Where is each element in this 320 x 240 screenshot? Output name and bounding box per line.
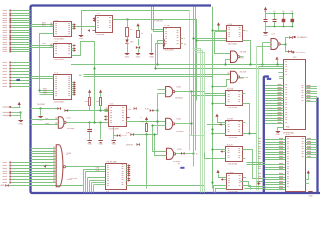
svg-text:74LS245B: 74LS245B — [53, 39, 64, 41]
svg-text:GND: GND — [136, 56, 141, 58]
svg-text:+UPROP: +UPROP — [125, 145, 134, 147]
svg-text:C9: C9 — [66, 154, 68, 156]
svg-text:74LS74B: 74LS74B — [228, 163, 238, 165]
svg-text:GND: GND — [286, 127, 291, 129]
svg-text:74LS245B: 74LS245B — [53, 59, 64, 61]
svg-text:X-W: X-W — [128, 109, 132, 111]
svg-text:IC4C: IC4C — [67, 118, 72, 120]
svg-text:74LS138B: 74LS138B — [106, 162, 117, 164]
svg-text:GND: GND — [111, 144, 116, 146]
svg-text:PC/MOSI: PC/MOSI — [155, 21, 163, 23]
svg-text:GND: GND — [308, 196, 313, 198]
svg-text:R9: R9 — [130, 29, 132, 31]
svg-text:C1: C1 — [264, 11, 266, 13]
svg-text:X4 TICBOX: X4 TICBOX — [296, 52, 307, 54]
svg-text:74LS74B: 74LS74B — [228, 137, 238, 139]
svg-text:IC14: IC14 — [228, 24, 233, 26]
svg-text:74LS138: 74LS138 — [69, 178, 78, 180]
svg-text:IC10C: IC10C — [227, 145, 234, 147]
svg-text:GND: GND — [149, 56, 154, 58]
svg-text:IC4D: IC4D — [177, 149, 182, 151]
svg-text:X4 NANDIO: X4 NANDIO — [297, 36, 308, 39]
svg-text:C2: C2 — [273, 11, 275, 13]
svg-text:GND: GND — [125, 56, 130, 58]
svg-text:IL: IL — [141, 117, 143, 119]
svg-text:WR: WR — [45, 118, 49, 120]
svg-text:C14: C14 — [272, 34, 275, 36]
svg-text:R7: R7 — [142, 122, 144, 124]
svg-text:GND: GND — [98, 144, 103, 146]
svg-text:D5 5V: D5 5V — [122, 135, 128, 137]
svg-text:74LS368: 74LS368 — [37, 104, 45, 106]
svg-text:74LS74B: 74LS74B — [228, 44, 238, 46]
svg-text:IC4B: IC4B — [176, 86, 181, 88]
svg-text:IC1B: IC1B — [165, 25, 170, 27]
svg-text:74LS245B: 74LS245B — [163, 49, 174, 51]
svg-text:J2: J2 — [196, 153, 198, 155]
svg-text:74LS04B: 74LS04B — [95, 34, 105, 36]
svg-text:X-W: X-W — [145, 108, 149, 110]
svg-text:74LS00B: 74LS00B — [67, 128, 76, 130]
svg-text:4: 4 — [184, 38, 185, 40]
svg-text:IC4A: IC4A — [176, 118, 181, 121]
svg-text:GND: GND — [87, 144, 92, 146]
svg-text:IC10A: IC10A — [227, 87, 234, 90]
svg-text:74L32B: 74L32B — [240, 72, 247, 74]
svg-text:74LS245B: 74LS245B — [53, 102, 64, 104]
svg-text:IC10D: IC10D — [227, 172, 234, 174]
svg-text:C4: C4 — [291, 11, 293, 13]
svg-text:X-W: X-W — [126, 133, 130, 135]
svg-text:74LS74B: 74LS74B — [228, 191, 238, 193]
svg-text:GND: GND — [19, 123, 24, 125]
svg-text:C3: C3 — [282, 11, 284, 13]
svg-text:IC11: IC11 — [286, 134, 291, 136]
svg-text:74LS00B: 74LS00B — [176, 131, 185, 133]
svg-text:A15: A15 — [45, 164, 48, 167]
svg-text:IC10B: IC10B — [227, 118, 234, 120]
svg-text:GND: GND — [276, 134, 281, 136]
svg-text:74L32B: 74L32B — [240, 51, 247, 53]
svg-text:74LS00B: 74LS00B — [175, 98, 184, 100]
svg-text:74LS74B: 74LS74B — [228, 107, 238, 109]
svg-text:R4: R4 — [141, 33, 143, 35]
svg-text:GND: GND — [79, 38, 84, 40]
svg-text:GND: GND — [263, 35, 268, 37]
svg-text:+CNE: +CNE — [243, 77, 249, 79]
